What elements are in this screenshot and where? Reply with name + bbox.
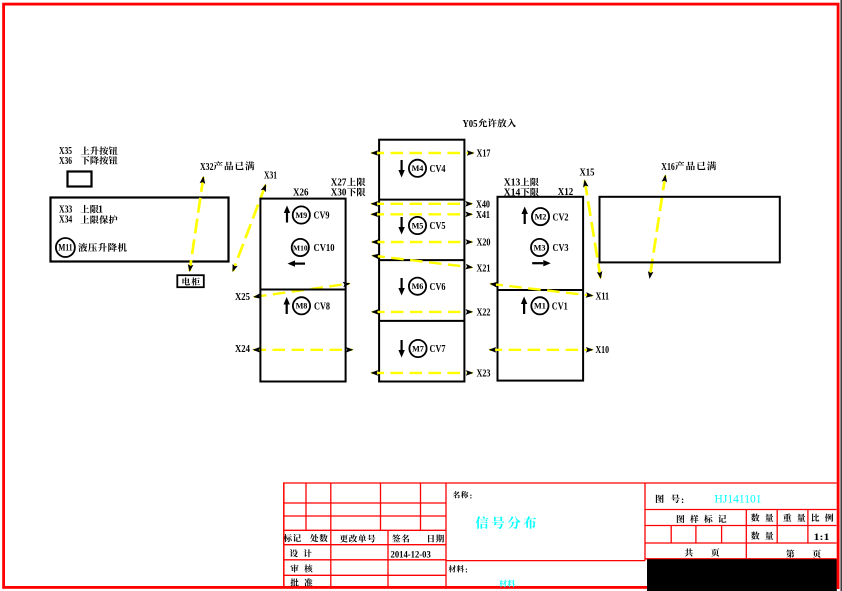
svg-text:HJ141101: HJ141101: [715, 492, 762, 506]
tb label mingcheng: [453, 490, 473, 500]
tb label tuhao: [656, 494, 684, 506]
label CV2: [553, 212, 569, 223]
svg-text:CV7: CV7: [430, 344, 446, 355]
label X31: [264, 171, 277, 182]
label X34 upper limit protect: [59, 215, 117, 226]
label X32 product full: [200, 161, 254, 173]
svg-text:X20: X20: [477, 237, 491, 248]
label X23: [477, 369, 491, 380]
svg-text:X16: X16: [661, 162, 675, 173]
label CV3: [553, 243, 569, 254]
arrow right CV3: [532, 260, 551, 266]
label X13 upper limit: [504, 177, 539, 188]
svg-text:M5: M5: [412, 221, 424, 230]
svg-text:CV10: CV10: [314, 243, 335, 254]
signal line X20: [371, 239, 473, 245]
cabinet box: [177, 275, 204, 287]
arrow up CV1: [521, 297, 527, 315]
signal line X11: [490, 282, 594, 298]
label X16 product full: [661, 161, 716, 173]
svg-text:CV6: CV6: [430, 282, 446, 293]
label X26: [293, 187, 309, 198]
tb label diye: [786, 549, 821, 557]
tb label shenhe: [290, 564, 312, 572]
svg-text:1:1: 1:1: [814, 533, 830, 543]
tb label bili: [812, 514, 834, 522]
right storage box: [600, 197, 780, 263]
label CV4: [430, 164, 447, 175]
arrow down CV7: [398, 340, 404, 358]
svg-text:M3: M3: [534, 243, 546, 252]
tb label shuliang2: [751, 532, 773, 540]
svg-text:X21: X21: [477, 263, 491, 274]
svg-text:M6: M6: [412, 282, 424, 291]
svg-text:CV1: CV1: [552, 301, 568, 312]
svg-text:Y05: Y05: [463, 119, 478, 130]
label X11: [596, 292, 610, 303]
label X12: [558, 187, 574, 198]
tb label shuliang1: [751, 514, 773, 522]
svg-text:CV9: CV9: [314, 211, 330, 222]
signal line X17: [371, 150, 475, 156]
svg-text:X30: X30: [331, 187, 347, 198]
label CV1: [552, 301, 568, 312]
motor M10: [292, 239, 309, 256]
tb label riqi: [428, 535, 444, 543]
tb label biaoji: [284, 534, 301, 542]
signal line X40: [371, 201, 474, 207]
motor M8: [293, 297, 310, 314]
hydraulic lift box: [51, 198, 229, 262]
label CV10: [314, 243, 335, 254]
tb label zhongliang: [783, 514, 805, 522]
tb black box: [647, 559, 837, 591]
button box: [68, 172, 92, 187]
border right segment: [837, 559, 840, 589]
label Y05 allow входput: [463, 118, 517, 130]
arrow down CV5: [398, 217, 404, 235]
signal line X22: [371, 309, 473, 315]
svg-text:X41: X41: [476, 210, 490, 221]
motor M4: [409, 160, 426, 177]
label X24: [235, 344, 251, 355]
arrow up CV2: [522, 207, 528, 225]
svg-text:X25: X25: [235, 292, 250, 303]
arrow up CV9: [284, 206, 290, 223]
svg-text:2014-12-03: 2014-12-03: [391, 551, 432, 561]
svg-text:M10: M10: [293, 243, 308, 252]
signal line X41: [371, 212, 474, 218]
tb label tuyangbiaoji: [677, 515, 727, 523]
svg-text:X32: X32: [200, 162, 214, 173]
tb scale 1:1: [814, 533, 830, 543]
svg-text:1: 1: [98, 204, 103, 215]
label X33 upper limit 1: [59, 204, 103, 215]
svg-text:M9: M9: [295, 211, 307, 220]
arrow down CV6: [398, 278, 404, 296]
svg-text:X12: X12: [558, 187, 574, 198]
svg-text:M1: M1: [534, 302, 546, 311]
tb label gongye: [685, 548, 720, 556]
label X40: [476, 199, 490, 210]
svg-text:M8: M8: [296, 302, 308, 311]
tb label sheji: [290, 549, 312, 557]
tb label cailiao: [448, 565, 468, 575]
label X25: [235, 292, 250, 303]
tb title signal distribution: [476, 516, 537, 529]
svg-text:X33: X33: [59, 204, 72, 215]
svg-text:X40: X40: [476, 199, 490, 210]
conveyor mid divider 2: [379, 259, 464, 261]
tb label chushu: [310, 534, 328, 542]
svg-text:X36: X36: [59, 156, 72, 167]
svg-text:X11: X11: [596, 292, 610, 303]
motor M1: [531, 297, 548, 314]
svg-text:X34: X34: [59, 215, 73, 226]
svg-text::: :: [465, 565, 468, 575]
signal line X25: [253, 282, 351, 299]
motor M3: [531, 239, 548, 256]
arrow down CV4: [398, 160, 404, 178]
conveyor mid divider 3: [379, 320, 464, 322]
label CV9: [314, 211, 330, 222]
label CV8: [314, 301, 330, 312]
svg-text:M11: M11: [58, 242, 73, 252]
screen right edge: [840, 0, 842, 591]
svg-text:X14: X14: [504, 187, 521, 198]
svg-text:X17: X17: [477, 149, 491, 160]
signal line X31: [233, 184, 267, 272]
svg-text:M4: M4: [412, 164, 424, 173]
arrow left CV10: [288, 260, 306, 266]
svg-text:M7: M7: [412, 344, 424, 353]
motor M5: [409, 217, 426, 234]
motor M11: [56, 238, 75, 257]
conveyor column mid outline: [379, 140, 464, 382]
label X30 lower limit: [331, 187, 366, 198]
label X10: [596, 345, 610, 356]
svg-text:CV5: CV5: [430, 221, 446, 232]
svg-text::: :: [681, 496, 684, 506]
title block grid: [283, 483, 837, 586]
conveyor block X12 divider: [498, 289, 584, 291]
conveyor block X12 outline: [498, 197, 584, 381]
tb cyan cailiao: [499, 580, 515, 588]
label X20: [477, 237, 491, 248]
svg-text:X10: X10: [596, 345, 610, 356]
motor M9: [293, 206, 310, 223]
svg-text:X22: X22: [477, 308, 491, 319]
label X27 upper limit: [331, 177, 366, 188]
signal line X23: [371, 370, 474, 376]
svg-text:X15: X15: [580, 166, 595, 178]
label X36 down button: [59, 156, 118, 167]
svg-text:X24: X24: [235, 344, 251, 355]
signal line X24: [253, 347, 354, 353]
motor M6: [409, 278, 426, 295]
svg-text:CV3: CV3: [553, 243, 569, 254]
tb label qianming: [392, 534, 409, 542]
label X15: [580, 166, 595, 178]
svg-text::: :: [470, 490, 473, 500]
label hydraulic lift: [78, 243, 126, 252]
label X41: [476, 210, 490, 221]
label X14 lower limit: [504, 187, 539, 198]
svg-text:CV8: CV8: [314, 301, 330, 312]
label CV7: [430, 344, 446, 355]
label X22: [477, 308, 491, 319]
svg-text:CV2: CV2: [553, 212, 569, 223]
tb label gaigedanhao: [340, 534, 376, 542]
signal line X16: [648, 175, 667, 280]
label CV5: [430, 221, 446, 232]
signal line X10: [489, 347, 594, 353]
signal line X21: [371, 254, 473, 270]
conveyor block X26 outline: [260, 199, 345, 382]
arrow up CV8: [284, 297, 290, 314]
label cabinet: [182, 277, 199, 285]
tb drawing number: [715, 492, 762, 506]
signal line X15: [583, 180, 602, 280]
tb date: [391, 551, 432, 561]
label X35 up button: [59, 146, 118, 157]
label X17: [477, 149, 491, 160]
svg-text:X31: X31: [264, 171, 277, 182]
motor M2: [532, 208, 549, 225]
conveyor mid divider 1: [379, 199, 464, 201]
tb label pizhun: [290, 578, 312, 586]
svg-text:X26: X26: [293, 187, 309, 198]
conveyor block X26 divider: [260, 289, 345, 291]
svg-text:X23: X23: [477, 369, 491, 380]
motor M7: [409, 340, 426, 357]
label CV6: [430, 282, 446, 293]
svg-text:CV4: CV4: [430, 164, 447, 175]
signal line X32 to cabinet: [188, 176, 205, 272]
svg-text:M2: M2: [535, 213, 547, 222]
label X21: [477, 263, 491, 274]
